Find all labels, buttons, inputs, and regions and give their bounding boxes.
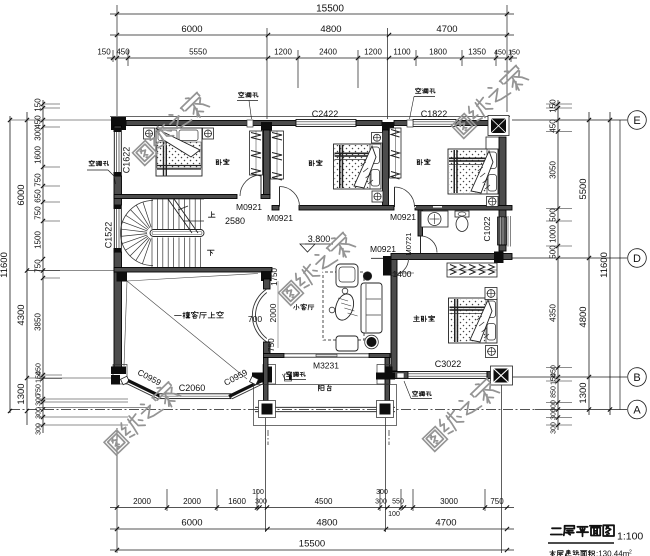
svg-text:5550: 5550 — [189, 48, 207, 57]
master nightstand bottom — [486, 346, 498, 358]
svg-text:450: 450 — [34, 115, 43, 129]
window C3022 — [408, 372, 487, 379]
bedroom3 bed — [448, 149, 498, 194]
title 二层平面图 — [551, 525, 614, 536]
stair lower run treads — [151, 238, 153, 268]
watermark top-right 图纸之家 — [455, 117, 472, 134]
living room left wall with arch — [264, 279, 271, 289]
column D x X4 — [494, 252, 504, 264]
void diagonal lines — [127, 274, 258, 282]
AC hole label balcony — [287, 372, 306, 377]
bay window C0959 right angled — [229, 381, 262, 397]
svg-text:1600: 1600 — [228, 497, 246, 506]
eave line above top wall — [110, 116, 510, 118]
bathroom toilet — [455, 211, 469, 217]
svg-text:500: 500 — [549, 245, 558, 259]
bathroom washbasin counter — [421, 211, 448, 227]
big column E x X4 with X brace — [488, 116, 509, 136]
right dim chain col — [557, 100, 559, 430]
bay window C2060 center — [159, 394, 231, 399]
svg-text:M0921: M0921 — [370, 244, 396, 254]
bottom dim row1 chain — [110, 507, 514, 509]
column at stair-void right — [261, 271, 272, 281]
text 上 — [208, 212, 215, 218]
grid circle B — [628, 368, 647, 387]
sofa side table top black — [363, 272, 372, 281]
master nightstand top — [485, 288, 497, 300]
top wall between C2422 and C1822 — [356, 121, 382, 126]
svg-text:750: 750 — [34, 206, 43, 220]
grid circle E — [628, 111, 647, 130]
svg-text:150: 150 — [34, 98, 43, 112]
axis circles connector — [619, 120, 621, 410]
svg-text:1200: 1200 — [274, 48, 292, 57]
svg-text:300: 300 — [551, 422, 558, 434]
AC hole label top C2422 — [239, 92, 259, 97]
svg-text:4800: 4800 — [316, 518, 337, 529]
svg-text:4800: 4800 — [578, 306, 589, 327]
svg-text:3.800: 3.800 — [308, 234, 331, 244]
bay window corner cluster right — [263, 365, 276, 385]
right dim col 5500/4800/1300 — [588, 112, 590, 415]
svg-text:M0921: M0921 — [390, 212, 416, 222]
svg-text:1350: 1350 — [468, 48, 486, 57]
svg-text:1750: 1750 — [270, 268, 279, 286]
master bedroom left wall — [391, 260, 397, 372]
svg-text:M0921: M0921 — [267, 213, 293, 223]
svg-text:1:100: 1:100 — [617, 531, 643, 543]
svg-text:2580: 2580 — [225, 216, 245, 226]
bottom extension lines — [116, 428, 118, 553]
window C1622 left wall — [114, 128, 121, 176]
B-axis wall: small piece left of C3022 — [392, 372, 408, 379]
svg-text:650: 650 — [34, 189, 43, 203]
left tick cross lines — [43, 103, 60, 105]
text 小客厅 — [294, 304, 314, 310]
watermark center 图纸之家 — [282, 284, 299, 301]
stairs top wall / D-corridor wall left — [114, 195, 237, 199]
svg-text:4800: 4800 — [320, 24, 341, 35]
svg-text:M3231: M3231 — [313, 361, 339, 371]
right exterior wall upper — [499, 137, 506, 217]
svg-text:300: 300 — [36, 394, 43, 406]
svg-text:5500: 5500 — [578, 178, 589, 199]
svg-text:4500: 4500 — [315, 497, 333, 506]
svg-text:1100: 1100 — [393, 48, 411, 57]
svg-text:700: 700 — [248, 314, 262, 324]
bedroom2 nightstand top — [372, 133, 383, 144]
svg-text:3000: 3000 — [440, 497, 458, 506]
svg-text:C1022: C1022 — [482, 216, 492, 241]
corner column top-left — [111, 117, 126, 130]
left dim col 6000/4300/1300 — [26, 112, 28, 425]
AC hole label master bedroom — [413, 391, 432, 396]
svg-text:1500: 1500 — [34, 231, 43, 249]
svg-text:300: 300 — [34, 127, 43, 141]
AC hole rect on B axis — [285, 374, 292, 381]
text 主卧室 — [413, 316, 434, 322]
balcony door M3231 — [284, 354, 369, 357]
svg-text:150: 150 — [508, 50, 520, 57]
svg-text:4350: 4350 — [549, 304, 558, 322]
top wall right section — [456, 121, 491, 126]
balcony corner post left — [259, 401, 276, 418]
AC hole label left wall — [89, 161, 109, 166]
svg-text:A: A — [633, 404, 641, 416]
svg-text:6000: 6000 — [181, 518, 202, 529]
B-axis stub walls at balcony right — [377, 365, 390, 385]
svg-text:1400: 1400 — [393, 269, 412, 279]
svg-text:750: 750 — [36, 384, 43, 396]
column E x X2 — [261, 122, 272, 131]
svg-text::130.44m: :130.44m — [596, 550, 630, 556]
text 阳台 — [319, 385, 332, 391]
svg-text:11600: 11600 — [0, 252, 10, 278]
svg-text:750: 750 — [34, 173, 43, 187]
top dim row2 6000/4800/4700 — [110, 34, 514, 36]
column at stair-void left — [117, 272, 128, 282]
niche rect below big column — [486, 137, 501, 151]
svg-text:1800: 1800 — [429, 48, 447, 57]
svg-text:150: 150 — [549, 99, 558, 113]
bottom dim row2 6000/4800/4700 — [110, 528, 514, 530]
svg-text:1200: 1200 — [364, 48, 382, 57]
balcony side wall left — [264, 358, 269, 405]
svg-text:4700: 4700 — [435, 518, 456, 529]
svg-text:150: 150 — [36, 371, 43, 383]
svg-text:2: 2 — [629, 550, 632, 556]
svg-text:C1522: C1522 — [104, 222, 114, 249]
bedroom2 bed — [334, 144, 382, 189]
svg-text:750: 750 — [267, 338, 276, 352]
window C2422 — [296, 120, 356, 127]
svg-text:4700: 4700 — [436, 24, 457, 35]
interior wall X3 between bedroom2 and bedroom3 — [383, 130, 389, 206]
left dim chain col — [42, 100, 44, 433]
sofa side table bottom black — [367, 337, 377, 347]
svg-text:C2060: C2060 — [179, 383, 206, 393]
master bed — [449, 298, 498, 343]
svg-text:15500: 15500 — [316, 4, 344, 15]
svg-text:4300: 4300 — [16, 304, 27, 325]
svg-text:E: E — [633, 115, 640, 127]
svg-text:11600: 11600 — [599, 252, 610, 278]
window C1022 right wall — [498, 217, 507, 245]
sofa single bottom — [336, 336, 358, 351]
svg-text:6000: 6000 — [181, 24, 202, 35]
sofa long right — [361, 283, 382, 333]
svg-text:C2422: C2422 — [312, 109, 339, 119]
svg-text:150: 150 — [97, 48, 111, 57]
bedroom1 bed — [156, 128, 202, 176]
window end caps left wall — [114, 128, 122, 132]
bay window corner cluster left — [113, 365, 127, 385]
axis line D — [512, 257, 627, 259]
right tick cross lines — [546, 103, 572, 105]
window C1522 left wall — [114, 205, 121, 252]
svg-text:500: 500 — [549, 208, 558, 222]
stair central handrail — [150, 230, 204, 237]
svg-text:100: 100 — [388, 511, 400, 518]
balcony railing double line — [255, 406, 395, 408]
stair up arrow — [183, 220, 204, 222]
D-axis wall right section — [391, 254, 512, 260]
stair break line with arrow — [168, 199, 192, 233]
bedroom3 nightstand — [487, 197, 499, 207]
door M0921 bedroom3 — [394, 187, 396, 207]
svg-text:6000: 6000 — [16, 184, 27, 205]
axis line A dash-dot — [10, 409, 535, 411]
corner column B x X4 with X brace — [491, 366, 513, 385]
stair fan treads — [121, 201, 153, 266]
sofa rug dashed — [323, 272, 364, 340]
bedroom3 wardrobe left — [390, 128, 402, 178]
door M0721 bathroom leaf+arc — [420, 236, 422, 253]
bottom dim row3 15500 — [110, 549, 514, 551]
coffee table oval — [332, 292, 357, 323]
svg-text:1600: 1600 — [34, 146, 43, 164]
AC hole label top C1822 — [416, 88, 436, 93]
grid circle D — [628, 249, 647, 268]
left exterior wall upper — [114, 126, 122, 128]
axis line E — [512, 119, 627, 121]
svg-text:2000: 2000 — [268, 303, 278, 322]
right dim col 11600 — [609, 112, 611, 415]
balcony corner post right — [377, 401, 394, 418]
svg-text:2000: 2000 — [133, 497, 151, 506]
text 卧室 bedroom1 — [216, 159, 229, 165]
text 卧室 bedroom2 — [309, 160, 322, 166]
left axis connector lines — [10, 119, 114, 121]
bedroom2 wardrobe left — [271, 131, 284, 179]
text 一楼客厅上空 — [175, 312, 224, 319]
watermark bottom-left 图纸之家 — [108, 434, 125, 451]
svg-text:2000: 2000 — [183, 497, 201, 506]
svg-text:15500: 15500 — [299, 539, 325, 550]
bedroom1 wardrobe right wall — [250, 131, 263, 175]
watermark top-left 图纸之家 — [136, 144, 153, 161]
svg-text:100: 100 — [252, 489, 264, 496]
bedroom1 nightstand right — [203, 128, 214, 139]
svg-text:M0721: M0721 — [404, 233, 413, 256]
svg-text:C1822: C1822 — [421, 109, 448, 119]
master wardrobe — [447, 263, 497, 277]
B wall right of C3022 — [487, 372, 493, 379]
text 卧室 bedroom3 — [417, 159, 430, 165]
top exterior wall E-axis left section — [126, 121, 296, 126]
svg-text:550: 550 — [392, 499, 404, 506]
svg-text:3850: 3850 — [34, 313, 43, 331]
stair-void boundary wall y270 — [114, 268, 272, 273]
stair upper run treads — [151, 199, 153, 229]
bedroom2 nightstand bottom — [372, 191, 383, 202]
text 下 — [207, 250, 214, 255]
svg-text:300: 300 — [376, 489, 388, 496]
top extension lines — [116, 5, 118, 116]
top wall right of columns — [394, 121, 413, 126]
svg-text:1300: 1300 — [578, 382, 589, 403]
door M0921 living room leaf — [383, 256, 392, 276]
svg-text:750: 750 — [490, 497, 504, 506]
left dim col 11600 — [9, 116, 11, 413]
wall M3231 line / living-balcony wall — [264, 354, 285, 358]
svg-text:D: D — [633, 253, 641, 265]
door M0921 bedroom1 (arc+leaf) — [260, 175, 262, 196]
svg-text:850: 850 — [551, 386, 558, 398]
interior wall between bedroom1 and bedroom2 — [264, 130, 271, 195]
svg-text:M0921: M0921 — [236, 202, 262, 212]
top dim row1 15500 — [110, 13, 514, 15]
axis line B — [512, 376, 627, 378]
subtitle 本层建筑面积:130.44m2 — [550, 550, 595, 556]
door M0921 bedroom2 — [279, 187, 281, 207]
right wall below C1022 — [499, 245, 506, 251]
svg-text:1000: 1000 — [549, 225, 558, 243]
title underline — [548, 542, 614, 544]
column E x X3 — [382, 122, 394, 131]
svg-text:450: 450 — [549, 119, 558, 133]
balcony side wall right — [385, 358, 390, 405]
svg-text:3050: 3050 — [549, 161, 558, 179]
svg-text:1300: 1300 — [16, 383, 27, 404]
arch opening semicircles — [252, 289, 266, 342]
bay window C0959 left angled — [128, 381, 161, 397]
sofa small circle — [342, 288, 348, 294]
left wall lower — [114, 252, 122, 367]
svg-text:C3022: C3022 — [435, 359, 462, 369]
left wall between windows — [114, 176, 122, 205]
window C1822 — [413, 120, 456, 127]
bedroom1 nightstand left — [144, 128, 155, 139]
bedrooms bottom wall y206 — [272, 206, 279, 211]
svg-text:B: B — [633, 372, 640, 384]
sofa single top — [336, 264, 358, 287]
svg-text:C1622: C1622 — [122, 147, 132, 174]
svg-text:150: 150 — [551, 373, 558, 385]
bathroom left wall — [418, 210, 423, 236]
top dim row3 chain — [107, 57, 517, 59]
watermark bottom-right 图纸之家 — [426, 430, 443, 447]
window C1022 outer sill lines — [507, 216, 509, 247]
balcony outer slab boundary — [254, 385, 397, 426]
svg-text:2400: 2400 — [319, 48, 337, 57]
grid circle A — [628, 400, 647, 419]
